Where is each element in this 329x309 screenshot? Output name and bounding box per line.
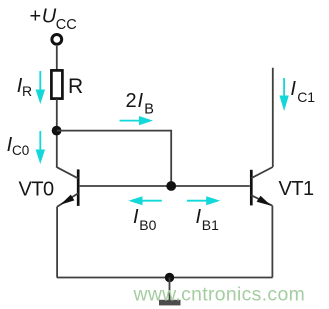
base wire VT0 to VT1 [80,185,250,187]
svg-text:CC: CC [56,17,77,33]
svg-text:R: R [68,75,83,98]
svg-text:+: + [30,5,42,27]
svg-text:C1: C1 [297,89,315,105]
transistor VT1 emitter diagonal [251,195,272,205]
label IB1 [196,206,220,233]
svg-text:2: 2 [126,90,137,112]
wire resistor to node A [56,99,58,168]
svg-text:U: U [42,5,57,27]
node B junction dot [166,181,176,191]
ground bar [159,300,181,306]
node C junction dot [165,273,174,282]
current arrow IR [36,71,45,104]
current arrow IC1 [279,78,288,111]
svg-text:VT1: VT1 [279,178,315,200]
current arrow IB0 [128,196,161,205]
current arrow 2IB [120,116,154,125]
svg-text:VT0: VT0 [19,179,55,201]
current arrow IB1 [187,196,220,205]
transistor VT0 emitter arrowhead [60,195,74,205]
wire VT1 collector up [272,68,274,167]
svg-text:B1: B1 [202,217,219,233]
svg-text:C0: C0 [12,143,29,158]
transistor VT1 base bar [250,170,253,206]
transistor VT0 collector diagonal [57,167,78,178]
terminal +Ucc [52,35,62,45]
bottom wire [57,277,273,279]
transistor VT0 emitter diagonal [57,193,78,207]
svg-text:I: I [290,78,296,100]
current arrow IC0 [36,131,45,164]
wire terminal to resistor [56,46,58,71]
label IC0 [7,134,30,158]
svg-text:I: I [133,206,139,228]
label +UCC [30,5,77,33]
svg-text:B0: B0 [139,217,156,233]
wire VT1 emitter down [271,206,273,278]
svg-text:I: I [196,206,202,228]
label IB0 [133,206,157,233]
transistor VT1 emitter arrowhead [257,196,272,206]
svg-text:I: I [138,90,144,112]
label 2IB [126,90,154,117]
resistor R [51,70,62,98]
transistor VT0 base bar [77,169,80,206]
transistor VT1 collector diagonal [251,167,272,178]
ground stub wire [169,278,171,301]
svg-text:www.cntronics.com: www.cntronics.com [133,284,306,306]
label IR [17,75,32,99]
svg-text:B: B [144,101,154,117]
wire node A to node B (2IB branch) [57,131,171,186]
svg-text:R: R [22,83,32,99]
wire VT0 emitter down [56,207,58,278]
node A junction dot [52,126,62,136]
label IC1 [290,78,315,105]
